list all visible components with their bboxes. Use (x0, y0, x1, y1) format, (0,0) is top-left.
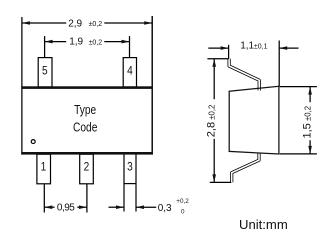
svg-text:1,1: 1,1 (240, 41, 254, 52)
dimension line 2,8 vertical (213, 59, 215, 99)
svg-text:±0,2: ±0,2 (89, 21, 103, 28)
leader lines 0,3 (109, 206, 125, 208)
pin 4 box (123, 58, 136, 87)
extension line lead tip (1,1 left) (228, 45, 230, 59)
extension line body right extended up (1,1 right) (278, 41, 280, 87)
pin 3 box bottom (124, 183, 136, 185)
dimension line 1,9 (45, 41, 67, 43)
arrow 1,1 right (pointing left) (279, 46, 287, 50)
dimension line 1,5 vertical (309, 87, 311, 103)
extension below pin1 (0,95) (43, 184, 45, 213)
svg-text:2,9: 2,9 (68, 18, 82, 29)
pin 5 box (38, 58, 52, 87)
arrow 1,9 right (122, 40, 130, 44)
arrow 2,8 down (212, 174, 216, 182)
arrows of top view dimensions (22, 21, 152, 209)
arrow 1,5 down (308, 146, 312, 154)
svg-text:±0,1: ±0,1 (254, 44, 268, 51)
arrows of side view dimensions (212, 46, 312, 182)
arrow 2,9 right (144, 21, 152, 25)
svg-text:1,5 ±0,2: 1,5 ±0,2 (302, 106, 314, 139)
svg-text:Unit:mm: Unit:mm (239, 217, 288, 232)
svg-text:4: 4 (127, 65, 133, 78)
top lead (gull wing, double contour) (229, 59, 259, 91)
svg-text:3: 3 (127, 161, 133, 174)
extension line body bottom right (1,5) (280, 153, 317, 155)
dimension line 0,95 (44, 206, 54, 208)
bottom lead (gull wing, double contour) (232, 154, 259, 183)
arrow 2,9 left (22, 21, 30, 25)
pin 1 box (37, 154, 51, 184)
pin 3 box sides extended for 0,3 dimension (123, 154, 125, 211)
arrow 0,3 left (outside, pointing right) (116, 205, 124, 209)
arrow 0,95 left (44, 205, 52, 209)
extension line left (2,9) / body left edge (21, 17, 23, 155)
extension below pin2 (0,95) (86, 184, 88, 213)
arrow 1,1 left (pointing right) (221, 46, 229, 50)
svg-text:±0,2: ±0,2 (89, 39, 103, 46)
arrow 0,95 right (79, 205, 87, 209)
pin 1 marker circle (31, 140, 35, 144)
svg-text:5: 5 (42, 65, 48, 78)
svg-text:0: 0 (181, 209, 185, 216)
svg-text:Code: Code (73, 122, 97, 135)
extension line bottom seating plane (2,8) (210, 181, 231, 183)
extension line pin5 center (1,9) (44, 36, 46, 58)
svg-text:+0,2: +0,2 (176, 198, 189, 205)
svg-text:0,95: 0,95 (57, 203, 75, 214)
body side view outline (229, 86, 279, 154)
leader line 1,1 right (279, 47, 298, 49)
extension line right (2,9) / body right edge (151, 16, 153, 155)
svg-text:2,8 ±0,2: 2,8 ±0,2 (205, 105, 217, 138)
body top edge (thick) (21, 86, 153, 89)
extension line body top right (1,5) (280, 86, 317, 88)
svg-text:1: 1 (41, 161, 47, 174)
extension line pin4 center (1,9) (129, 36, 131, 58)
pin 2 box (80, 154, 94, 184)
svg-text:1,9: 1,9 (69, 37, 83, 48)
arrow 1,9 left (45, 40, 53, 44)
arrow 1,5 up (308, 87, 312, 95)
body bottom edge (thick) (21, 152, 153, 155)
arrow 0,3 right (outside, pointing left) (136, 205, 144, 209)
dimension line 2,9 (22, 22, 66, 24)
leader line 1,1 left (208, 47, 228, 49)
svg-text:Type: Type (74, 104, 96, 117)
extension line top of lead (2,8) (207, 58, 228, 60)
svg-text:0,3: 0,3 (158, 203, 172, 214)
svg-text:2: 2 (84, 161, 90, 174)
arrow 2,8 up (212, 59, 216, 67)
